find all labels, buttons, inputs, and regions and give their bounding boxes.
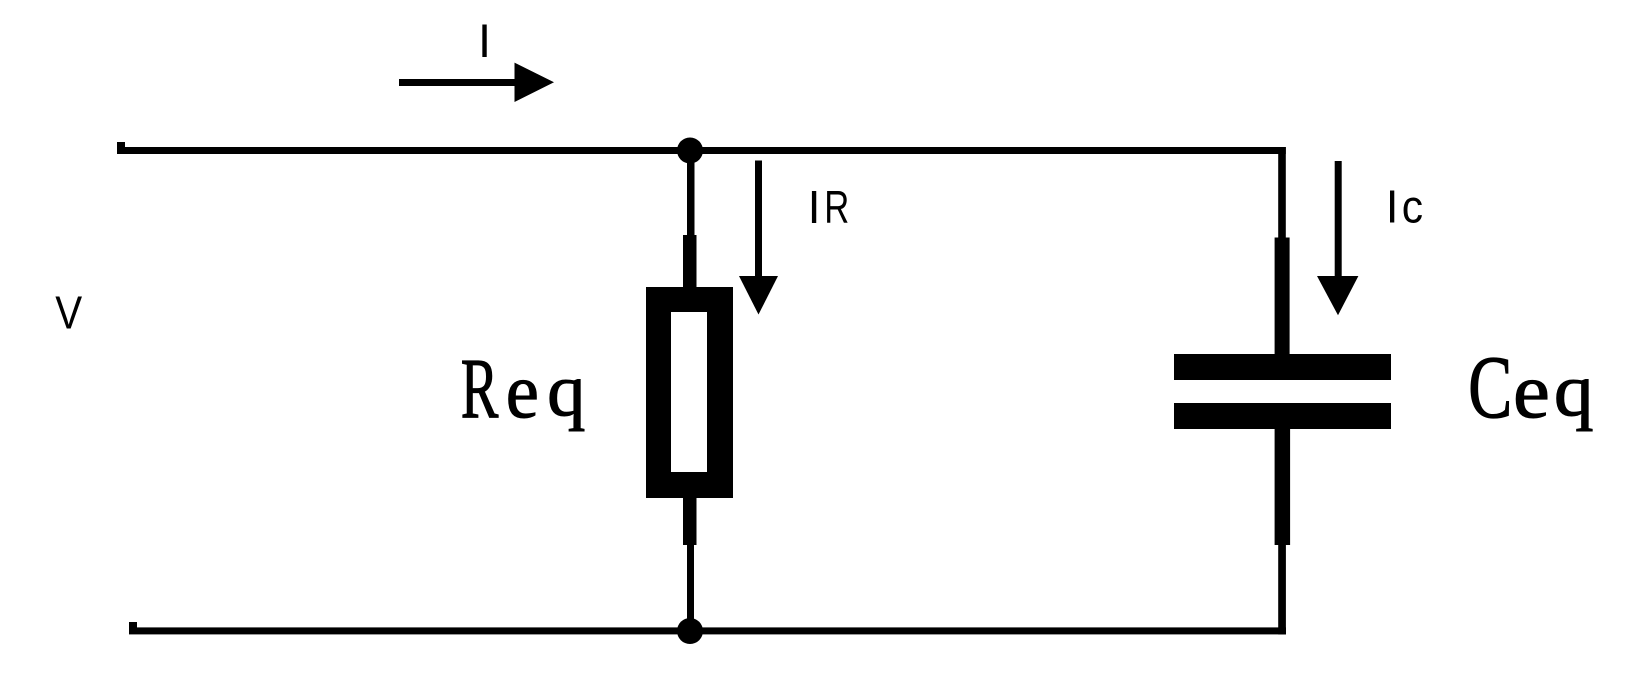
svg-text:C: C: [1468, 337, 1512, 436]
wire: resistor branch upper lead: [683, 150, 697, 288]
wire: bottom horizontal rail: [129, 622, 1286, 634]
label Req: [461, 340, 586, 436]
wire: capacitor branch lower lead: [1275, 429, 1291, 635]
arrow: current Ic (capacitor branch, pointing down): [1317, 161, 1358, 315]
label IR: [808, 181, 850, 233]
label Ceq: [1468, 337, 1593, 436]
svg-text:q: q: [547, 350, 585, 431]
svg-text:e: e: [1513, 348, 1550, 435]
svg-text:c: c: [1402, 182, 1423, 233]
resistor Req body: [646, 287, 733, 498]
label V (source voltage): [55, 288, 82, 339]
arrow: current IR (resistor branch, pointing down): [739, 161, 778, 315]
arrow: current I (top, pointing right): [399, 63, 554, 102]
label I (current arrow): [478, 14, 491, 67]
wire: capacitor branch upper lead: [1275, 147, 1290, 355]
wire: resistor branch lower lead: [683, 498, 697, 632]
svg-text:I: I: [1386, 181, 1399, 233]
svg-text:V: V: [55, 288, 82, 339]
capacitor Ceq plates: [1174, 354, 1391, 429]
svg-text:R: R: [824, 181, 849, 233]
node B: bottom junction dot: [677, 618, 703, 644]
label Ic: [1386, 181, 1423, 233]
svg-text:R: R: [461, 340, 499, 436]
svg-text:I: I: [808, 181, 821, 233]
svg-text:I: I: [478, 14, 491, 67]
wire: top horizontal rail from V+ to capacitor branch: [117, 142, 1286, 154]
svg-text:q: q: [1554, 349, 1594, 431]
node A: top junction dot: [677, 138, 703, 164]
svg-text:e: e: [506, 347, 539, 434]
